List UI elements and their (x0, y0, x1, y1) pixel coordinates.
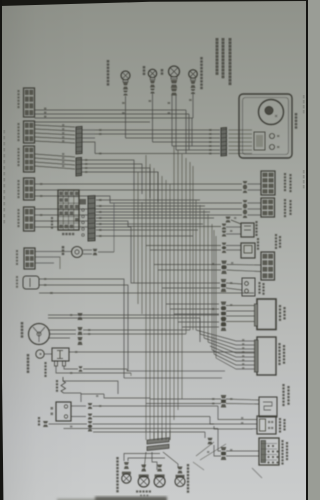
ignition coil input wires (222, 224, 227, 226)
connector bullets under position lamp (150, 81, 155, 84)
label flasher relay (279, 418, 281, 420)
label handlebar switch block 2 (17, 123, 19, 125)
label regulator rectifier (279, 305, 281, 307)
label horn (62, 246, 65, 249)
bottom shadow smudge (57, 497, 167, 500)
label handlebar switch block 3 (17, 148, 19, 150)
ignition coil box (241, 223, 254, 237)
handlebar switch block 5 (24, 207, 35, 231)
rear turn signal lamp left far (124, 462, 129, 465)
PTC heater box (242, 278, 255, 296)
starter motor (36, 350, 44, 358)
spark plug box (241, 243, 255, 258)
label handlebar switch block 4 (17, 180, 19, 182)
horn (72, 247, 83, 258)
CDI PTC control unit box (257, 337, 276, 375)
label spark plug (257, 238, 259, 240)
ground wire long run (39, 292, 254, 294)
tail brake lamp 1 (141, 465, 146, 468)
flasher relay box (257, 416, 276, 434)
wires bars to rear lamps (124, 454, 160, 462)
label headlamp (161, 69, 164, 72)
long low wires (93, 431, 205, 433)
label position lamp (143, 66, 146, 69)
handlebar switch block 1 (24, 88, 35, 117)
multipin connector bar to meter (221, 128, 227, 156)
connector lens column B (76, 157, 82, 176)
photo edge left strip (0, 0, 3, 500)
wires lens A exit right to meter rows (83, 129, 96, 131)
connector lens column A (76, 126, 82, 154)
relay leg wires (56, 366, 131, 373)
pointer line under main switch (252, 468, 262, 478)
label handlebar switch block 5 (17, 209, 19, 211)
label rear brake switch (284, 199, 286, 201)
lamp front turn signal left (121, 71, 130, 80)
small connector left of harness bar (79, 199, 86, 205)
starter motor wire (44, 353, 52, 355)
label handlebar switch block 1 (17, 90, 19, 92)
page margin text right edge (303, 95, 305, 98)
front brake switch bullets (243, 181, 248, 183)
page margin text left edge (3, 130, 5, 133)
label left of contact table (51, 217, 53, 219)
magneto connector bullets (78, 327, 83, 330)
CDI input wire fan (196, 330, 255, 341)
ground lead and label (38, 417, 40, 419)
wire right turn lamp drop (192, 94, 194, 118)
diagonal wires right of rear lamps (196, 442, 214, 456)
label under tail lamps (136, 490, 138, 492)
starter relay (52, 348, 69, 361)
regulator bullets (221, 302, 227, 305)
label meter assembly right of box (295, 113, 298, 116)
magneto flywheel (29, 324, 50, 345)
legend SP HI TU - three vertical text lines (216, 38, 219, 41)
handlebar switch block 3 (24, 146, 35, 172)
connector bullets under left turn lamp (123, 83, 128, 86)
speedometer dial circle (259, 100, 284, 125)
long wires block4 block5 to right side (35, 183, 243, 185)
main harness connector bar tall (88, 196, 95, 241)
label front turn signal lamp left - vertical text (107, 60, 110, 63)
handlebar switch block 4 (24, 178, 35, 200)
auto choke block (261, 252, 275, 280)
rear brake switch bullets (243, 200, 248, 202)
bus corner drops to meter rows (185, 110, 187, 154)
block 6 output wires (35, 251, 72, 253)
upper magneto rows (48, 314, 219, 316)
rear brake switch block (261, 198, 275, 217)
center harness vertical wires (133, 190, 135, 283)
meter harness rows into connector (95, 129, 220, 131)
wires crossing to right bullets mid page (146, 245, 221, 247)
lamp front turn signal right (189, 70, 198, 79)
label front brake switch (284, 173, 286, 175)
photo edge top wedge (0, 0, 308, 6)
label condenser (16, 276, 18, 278)
harness bar output rows (96, 199, 200, 201)
handlebar switch block 2 (24, 121, 35, 143)
fuse (61, 377, 66, 393)
ignition coil input arrows (226, 217, 231, 219)
lamp headlight (169, 66, 180, 77)
regulator rectifier box (257, 299, 276, 330)
switch block 6 lower left (24, 248, 35, 269)
lamp front position left (148, 69, 156, 77)
CDI bullets (221, 318, 227, 321)
label auto choke (275, 234, 277, 236)
main switch contact table (58, 190, 79, 230)
battery positive wire (71, 405, 86, 407)
main ignition switch box (259, 438, 279, 465)
rear turn signal lamp right (178, 467, 183, 470)
indicator lamp TU inside meter (270, 145, 275, 150)
label starter motor (27, 354, 30, 357)
flasher bullets and wires (218, 406, 257, 420)
wires block2 to lens A (35, 125, 76, 127)
magneto output wires (49, 329, 76, 331)
relay output wire right (69, 351, 255, 353)
top bus wires from switch blocks to lamps (35, 109, 187, 111)
label main switch (281, 440, 283, 442)
horn wires to bullets (83, 249, 92, 251)
label magneto (21, 322, 24, 325)
front brake switch block (261, 171, 275, 195)
label rear turn left (116, 457, 118, 459)
wire position lamp drop (152, 94, 154, 143)
ground bus lower wire (64, 428, 219, 430)
label block 6 (16, 250, 18, 252)
fuse rails (63, 381, 118, 394)
label rear turn right (187, 464, 189, 466)
label fuse (56, 380, 58, 382)
condenser (23, 276, 39, 289)
connector block under headlight (171, 80, 178, 83)
label fuel sender (282, 384, 284, 386)
battery top feed wires (80, 393, 82, 402)
rear connector bars (147, 438, 169, 444)
photo edge right strip (306, 0, 308, 500)
wires block3 to lens B (35, 154, 76, 157)
label ignition coil (255, 221, 257, 223)
fuel level sender box (259, 397, 277, 417)
fuel sender bullets (221, 395, 227, 398)
wire headlight drops (171, 96, 173, 147)
choke wires (221, 261, 227, 264)
label CDI unit (278, 343, 280, 345)
speedometer internal connector rect (254, 132, 265, 150)
terminal circles between table and bar (82, 209, 85, 212)
label PTC heater (258, 282, 260, 284)
label under contact table (62, 233, 64, 235)
PTC bullets (221, 279, 227, 282)
condenser wires (39, 279, 124, 378)
speedometer unit box (239, 94, 292, 158)
wire left turn lamp drop (125, 96, 127, 138)
bullet mid bottom (208, 438, 213, 441)
spark plug wires (222, 243, 227, 245)
tail brake lamp 2 (157, 465, 162, 468)
label front turn signal lamp right - vertical text (200, 57, 203, 60)
wires lens B exit right then down (82, 160, 135, 190)
magneto wires to right (83, 329, 190, 331)
label starter relay (44, 362, 46, 364)
rear harness vertical bundle (145, 430, 147, 440)
connector bullets under right turn lamp (191, 81, 196, 84)
battery (56, 402, 71, 421)
battery negative wire (71, 416, 86, 418)
main switch bullets and wires (221, 447, 227, 450)
indicator lamp HI inside meter (270, 134, 275, 139)
